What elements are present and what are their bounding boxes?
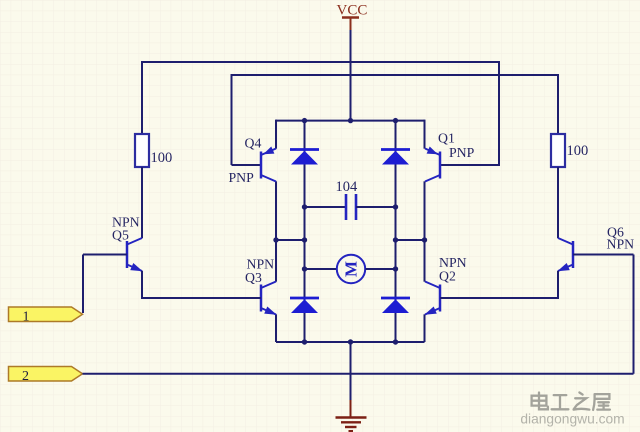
label Q6 NPN [607,236,635,251]
junction top rail left diode [302,118,307,123]
wire Q6 emitter to Q2 base [440,297,559,299]
wire top rail (bridge top) [276,120,425,122]
junction cap right column [393,204,398,209]
label Q3 NPN [247,257,275,272]
label R2 value 100 [567,143,589,159]
junction top rail right diode [393,118,398,123]
wire left diode column vertical [304,121,306,342]
junction left bridge row [273,237,278,242]
wire net A horizontal (Q5 collector to Q1 base) [142,61,499,63]
transistor Q1 PNP (top right) [425,146,440,181]
port connector 2 [9,367,83,384]
power symbol VCC [337,3,368,31]
svg-text:diangongwu.com: diangongwu.com [520,412,624,427]
wire motor left [305,268,337,270]
svg-text:100: 100 [567,143,589,159]
svg-text:100: 100 [151,150,173,166]
wire net A right vertical to Q1 base [498,61,500,165]
wire Q6 emitter down [557,271,559,298]
diode D2 (top right, flyback to VCC) [381,150,410,165]
wire cap right [356,206,396,208]
wire net A left vertical to resistor R1 top [141,61,143,134]
wire R1 bottom to Q5 collector [141,167,143,238]
label Q2 NPN [439,255,467,270]
label Q5 [112,227,129,242]
junction right bridge row [422,237,427,242]
motor M1 circle [337,255,365,283]
label Q1 PNP [449,145,475,160]
svg-text:104: 104 [336,179,359,195]
transistor Q4 PNP (top left) [261,146,276,181]
wire net B right vertical to resistor R2 top [557,74,559,134]
wire Q5 base horizontal [83,254,127,256]
wire Q6 base vertical from input 2 [633,255,635,374]
diode D1 (top left, flyback to VCC) [290,150,319,165]
svg-text:M: M [342,261,361,277]
wire Q1 base horizontal [440,164,500,166]
wire top rail right end down to Q1 emitter [424,120,426,149]
wire left bridge to left diode column [276,239,305,241]
transistor Q6 NPN (right driver) [557,238,573,271]
svg-text:PNP: PNP [229,170,255,185]
svg-text:Q5: Q5 [112,227,129,242]
label R1 value 100 [151,150,173,166]
wire input 2 horizontal [83,373,634,375]
svg-text:PNP: PNP [449,145,475,160]
diode D3 (bottom left, flyback to GND) [290,298,319,313]
svg-text:VCC: VCC [337,3,368,19]
wire Q6 base horizontal [573,254,634,256]
wire ground vertical [350,342,352,402]
wire Q5 emitter to Q3 base [141,297,261,299]
label C1 value 104 [336,179,359,195]
svg-text:Q1: Q1 [438,130,455,145]
watermark text 电工之屋 [532,393,610,410]
wire Q4 base horizontal [232,164,262,166]
port connector 1 [9,307,83,324]
junction right diode column row [393,237,398,242]
wire VCC vertical to top rail [350,30,352,121]
svg-text:Q3: Q3 [245,270,262,285]
junction bottom rail right diode [393,339,398,344]
wire input 1 vertical to Q5 base [82,255,84,314]
svg-text:NPN: NPN [607,236,635,251]
resistor R2 100 (right) [551,134,565,167]
junction cap left column [302,204,307,209]
wire motor right [366,268,396,270]
label Q5 NPN [112,214,140,229]
svg-text:Q2: Q2 [439,268,456,283]
wire right diode column vertical [395,121,397,342]
transistor Q5 NPN (left driver) [127,238,143,271]
diode D4 (bottom right, flyback to GND) [381,298,410,313]
wire Q4 collector to Q3 collector vertical [275,181,277,281]
junction top rail VCC [348,118,353,123]
svg-text:1: 1 [23,309,30,324]
wire Q1 collector to Q2 collector vertical [424,181,426,281]
wire Q2 emitter down to bottom rail [424,314,426,342]
junction motor right column [393,266,398,271]
label Q1 [438,130,455,145]
transistor Q3 NPN (bottom left) [261,282,277,315]
wire net B horizontal (Q4 base to Q6 collector) [232,74,559,76]
wire net B left vertical to Q4 base [231,74,233,165]
svg-text:2: 2 [22,369,29,384]
wire bottom rail [276,341,425,343]
label Q4 PNP [229,170,255,185]
junction left diode column row [302,237,307,242]
junction motor left column [302,266,307,271]
svg-text:Q4: Q4 [245,135,262,150]
wire top rail left end down to Q4 emitter [275,120,277,149]
junction bottom rail left diode [302,339,307,344]
junction bottom rail ground [348,339,353,344]
ground symbol [336,400,367,431]
watermark text diangongwu.com [520,412,624,427]
label Q6 [607,224,624,239]
label Q4 [245,135,262,150]
wire cap left [305,206,347,208]
wire R2 bottom to Q6 collector [557,167,559,238]
wire Q3 emitter down to bottom rail [275,314,277,342]
wire Q5 emitter down [141,271,143,298]
capacitor C1 104 [346,194,360,220]
label Q2 [439,268,456,283]
wire right diode column to right bridge [396,239,425,241]
resistor R1 100 (left) [135,134,149,167]
transistor Q2 NPN (bottom right) [424,282,440,315]
label Q3 [245,270,262,285]
